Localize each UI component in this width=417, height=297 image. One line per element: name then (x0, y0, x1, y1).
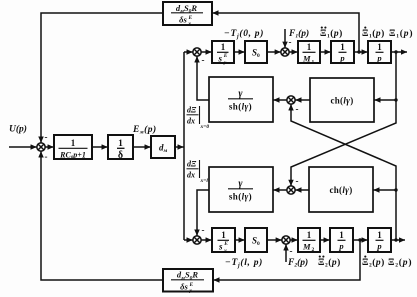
svg-text:-: - (202, 55, 205, 65)
svg-text:p: p (339, 53, 344, 63)
svg-text:ch(lγ): ch(lγ) (330, 96, 353, 106)
wire: SH2 output down to JA minus input (197, 190, 209, 236)
block B8: 1/p (top second) (368, 41, 391, 63)
wire: 1/M1 to 1/p (320, 51, 331, 53)
svg-text:dΞ: dΞ (187, 106, 197, 115)
wire: U(p) input arrow (9, 146, 37, 148)
svg-text:sh(lγ): sh(lγ) (229, 102, 252, 112)
svg-text:1: 1 (307, 230, 312, 240)
svg-text:2: 2 (312, 247, 315, 253)
wire: JD to SH2 input (273, 189, 286, 191)
summing junction J0 (37, 143, 45, 151)
label Xi2 dot (p) (362, 256, 385, 269)
svg-text:-: - (45, 152, 48, 162)
label Xi1 dot (p) (362, 27, 385, 40)
svg-text:-: - (289, 37, 292, 47)
svg-text:x=0: x=0 (200, 124, 210, 130)
summing junction JB (F2) (282, 236, 290, 244)
block TF: d_m S0 R / (delta s_y^E) top feedback (163, 2, 212, 25)
svg-text:1: 1 (312, 60, 315, 66)
svg-text:Ξ2(p): Ξ2(p) (362, 257, 385, 269)
node: Xi2 feedback tap (394, 238, 397, 241)
svg-text:y: y (223, 248, 227, 254)
svg-text:Eм(p): Eм(p) (132, 124, 157, 136)
svg-text:p: p (376, 53, 381, 63)
svg-text:Ξ1(p): Ξ1(p) (389, 28, 413, 40)
node: Xi2-dot tap (358, 238, 361, 241)
block B5: S0 (top) (245, 41, 267, 63)
svg-text:M: M (302, 242, 311, 252)
wire: CH1 output to J3 (295, 99, 310, 101)
svg-text:F2(p): F2(p) (287, 257, 308, 269)
svg-text:dx: dx (187, 171, 195, 180)
wire: J3 to SH1 input (273, 99, 286, 101)
wire: J2 to 1/M1 (289, 51, 297, 53)
svg-text:1: 1 (307, 42, 312, 52)
block B13: 1/p (bottom second) (368, 228, 391, 252)
wire: B3 to bus (175, 146, 184, 148)
svg-text:-: - (296, 104, 299, 114)
svg-text:p: p (376, 241, 381, 251)
wire: J0 to block B1 (45, 146, 53, 148)
block CH1: ch(l gamma) top (310, 78, 374, 122)
svg-text:s: s (218, 242, 223, 252)
svg-text:δ: δ (118, 150, 123, 161)
wire: 1/M2 to 1/p (bottom) (320, 239, 330, 241)
block B6: 1/M1 (298, 41, 320, 63)
wire: J1 to block 1/s (top) (201, 51, 211, 53)
svg-text:1: 1 (118, 139, 123, 149)
wire: Xi2 up right side into CH2 input (373, 190, 396, 240)
svg-text:p: p (338, 241, 343, 251)
wire: E_m bus vertical (183, 52, 185, 240)
block SH1: gamma/sh(l gamma) top (209, 77, 273, 122)
wire: S0 to junction JB (267, 239, 282, 241)
block B4: 1/s_y^E (top) (212, 41, 234, 63)
wire: Xi1 down right side into CH1 input (374, 52, 396, 100)
wire: F1 input arrow into J2 (284, 29, 286, 48)
summing junction J2 (F1) (281, 48, 289, 56)
summing junction J1 (top) (193, 48, 201, 56)
wire: B2 to B3 (133, 146, 151, 148)
svg-text:x=l: x=l (200, 178, 209, 184)
node: Xi1-dot tap (357, 50, 360, 53)
svg-text:δs: δs (180, 281, 188, 291)
svg-text:Ξ2(p): Ξ2(p) (388, 257, 412, 269)
wire: BF output up to J0 minus input (41, 151, 163, 280)
block SH2: gamma/sh(l gamma) bottom (209, 167, 273, 212)
svg-text:1: 1 (221, 230, 226, 240)
wire: JB to 1/M2 (290, 239, 297, 241)
block B1: 1/(RC0 p + 1) (54, 135, 92, 159)
node: CH2 input tap (394, 188, 397, 191)
wire: Xi2 output arrow (391, 239, 405, 241)
svg-text:E: E (223, 53, 228, 59)
wire: 1/p to 1/p (bottom) with tap (353, 239, 368, 241)
block B3: d_m (151, 136, 175, 158)
svg-text:Ξ1(p): Ξ1(p) (362, 28, 385, 40)
wire: 1/p to 1/p with tap node (354, 51, 368, 53)
svg-text:-: - (290, 246, 293, 256)
svg-text:dx: dx (187, 117, 195, 126)
svg-text:1: 1 (340, 42, 345, 52)
label Xi2 double dot (p) (318, 256, 341, 269)
svg-text:sh(lγ): sh(lγ) (229, 192, 252, 202)
svg-text:1: 1 (377, 230, 382, 240)
svg-text:δs: δs (179, 15, 187, 25)
block B9: 1/s_y^E (bottom) (212, 228, 235, 252)
svg-text:−Tj(0, p): −Tj(0, p) (224, 28, 264, 40)
svg-text:1: 1 (221, 42, 226, 52)
wire: Xi2-dot tap down to BF block (214, 240, 361, 280)
wire: bus to top junction J1 (184, 51, 193, 53)
wire: JA to block 1/s (bottom) (201, 239, 211, 241)
block B10: S0 (bottom) (245, 228, 267, 252)
svg-text:dΞ: dΞ (187, 160, 197, 169)
svg-text:−Tj(l, p): −Tj(l, p) (225, 257, 263, 269)
wire: TF block output down to input summing junction (41, 13, 163, 143)
svg-text:Ξ1(p): Ξ1(p) (320, 28, 343, 40)
svg-text:RC0p+1: RC0p+1 (59, 151, 86, 162)
wire: B1 to B2 (92, 146, 108, 148)
wire: diagonal B, Xi1 cross down to JD minus input (291, 100, 396, 186)
block B2: 1/delta (108, 135, 133, 159)
svg-text:y: y (223, 60, 227, 66)
summing junction J3 (before SH1) (287, 96, 295, 104)
summing junction JA (bottom) (193, 236, 201, 244)
label dXi/dx at x=l (187, 160, 209, 185)
svg-text:-: - (45, 132, 48, 142)
svg-text:1: 1 (71, 138, 76, 148)
svg-text:s: s (218, 54, 223, 64)
wire: SH1 output to J1 minus input (197, 56, 209, 100)
wire: diagonal A, Xi2 cross up to J3 minus input (291, 104, 396, 190)
block B7: 1/p (top first) (331, 41, 354, 63)
wire: B9 to S0 (bottom) (235, 239, 245, 241)
svg-text:1: 1 (339, 230, 344, 240)
svg-text:1: 1 (377, 42, 382, 52)
svg-text:y: y (188, 21, 192, 27)
wire: F2 input arrow up into JB (285, 244, 287, 262)
block B12: 1/p (bottom first) (330, 228, 353, 252)
block B11: 1/M2 (298, 228, 320, 252)
svg-text:U(p): U(p) (9, 124, 27, 135)
summing junction JD (before SH2) (287, 186, 295, 194)
svg-text:y: y (189, 288, 193, 294)
label dXi/dx at x=0 (187, 106, 210, 131)
svg-text:E: E (223, 241, 228, 247)
wire: bus to bottom junction JA (184, 239, 193, 241)
node: Xi1 feedback tap (394, 50, 397, 53)
wire: Xi1 output arrow (391, 51, 407, 53)
block CH2: ch(l gamma) bottom (309, 167, 373, 212)
node: CH1 input tap (394, 98, 397, 101)
wire: Xi1-dot tap up to TF block (213, 13, 360, 52)
label Xi1 double dot (p) (320, 27, 343, 40)
wire: B4 to S0 (top) (234, 51, 245, 53)
wire: S0 to junction J2 (267, 51, 281, 53)
svg-text:-: - (202, 225, 205, 235)
svg-text:Ξ2(p): Ξ2(p) (318, 257, 341, 269)
svg-text:-: - (296, 176, 299, 186)
wire: CH2 output to JD (295, 189, 309, 191)
svg-text:M: M (302, 54, 311, 64)
block BF: d_m S0 R / (delta s_y^E) bottom feedback (163, 269, 213, 292)
svg-text:ch(lγ): ch(lγ) (329, 185, 352, 195)
